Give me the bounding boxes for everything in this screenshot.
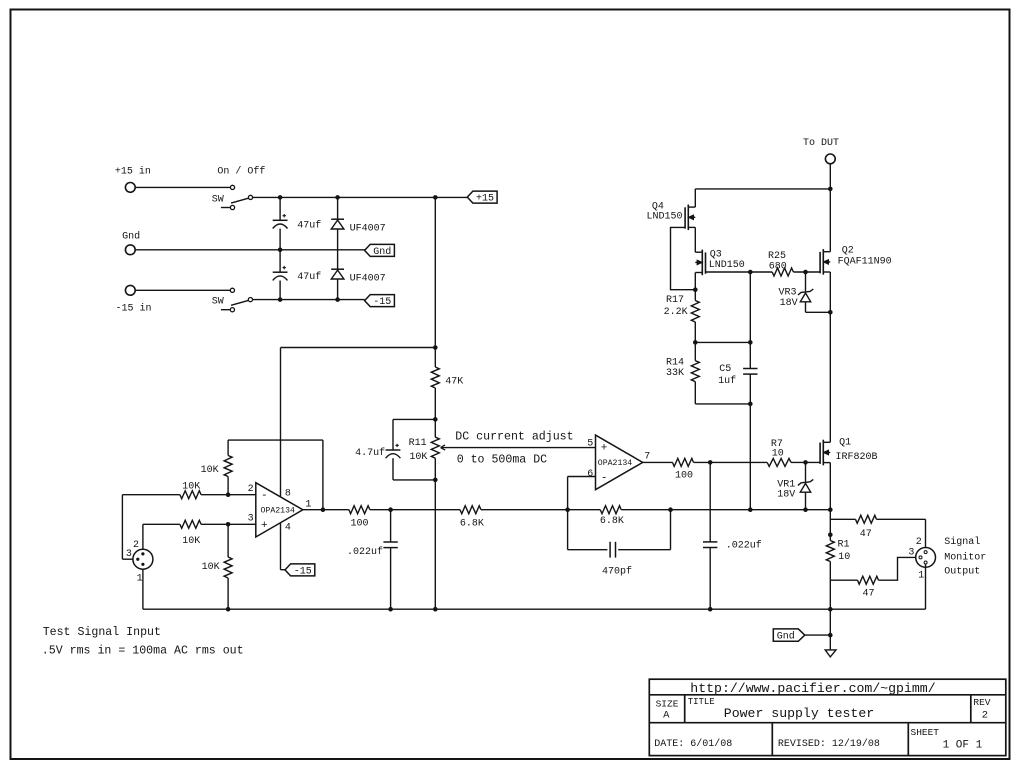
transistor Q2 FQAF11N90	[822, 249, 824, 275]
svg-text:Signal: Signal	[944, 536, 980, 548]
node rail/main vertical	[433, 607, 438, 612]
resistor R7 10	[767, 458, 791, 466]
svg-text:1: 1	[137, 573, 143, 584]
svg-text:VR3: VR3	[779, 288, 797, 299]
svg-text:REVISED: 12/19/08: REVISED: 12/19/08	[778, 738, 880, 750]
wire to 10K noninverting resistor	[143, 523, 180, 525]
diode UF4007 lower	[331, 268, 344, 270]
svg-text:-15: -15	[294, 567, 312, 578]
node Gnd row / cap column	[278, 248, 283, 253]
wire Q1 source down	[829, 463, 831, 541]
capacitor .022uf	[390, 510, 392, 542]
svg-text:6: 6	[587, 469, 593, 480]
node Gnd flag junction	[828, 633, 833, 638]
svg-text:Gnd: Gnd	[122, 231, 140, 243]
node VR1 top	[803, 460, 808, 465]
wire U1 supply tap to pin 8	[281, 347, 436, 349]
wire Q4 gate loop	[671, 227, 696, 289]
node C5 bottom	[748, 402, 753, 407]
wire XLR pin3 to inverting path	[122, 558, 132, 560]
wire 6.8K to U2 pin6 node	[481, 509, 600, 511]
svg-text:10K: 10K	[201, 465, 219, 476]
svg-text:+: +	[261, 520, 268, 532]
ground symbol	[825, 650, 836, 657]
resistor 10K noninverting input	[180, 520, 201, 528]
title block	[649, 679, 1006, 755]
svg-text:0 to 500ma DC: 0 to 500ma DC	[457, 453, 547, 466]
node -15 rail / diode column	[335, 297, 340, 302]
svg-text:100: 100	[351, 518, 369, 529]
wire ground rail	[143, 608, 926, 610]
svg-text:1: 1	[918, 570, 924, 581]
node R1 top	[828, 533, 833, 538]
svg-text:LND150: LND150	[709, 260, 745, 271]
wire Q3 gate vertical with C5	[749, 272, 751, 369]
wire R7 to Q1 gate	[791, 461, 820, 463]
node Q3 gate vertical	[748, 507, 753, 512]
wire To DUT down to Q2 drain	[829, 164, 831, 252]
resistor R1 10	[826, 541, 834, 562]
wire feedback top	[228, 439, 323, 441]
svg-text:470pf: 470pf	[602, 565, 632, 577]
wire 47K to R11	[434, 388, 436, 437]
svg-text:+15 in: +15 in	[115, 166, 151, 178]
svg-text:R14: R14	[666, 357, 684, 368]
node rail/.022uf	[388, 607, 393, 612]
svg-text:8: 8	[285, 488, 291, 499]
node Q3 gate / C5 branch	[748, 270, 753, 275]
svg-text:IRF820B: IRF820B	[836, 452, 878, 463]
node Q1 source row	[828, 507, 833, 512]
node rail/10K	[226, 607, 231, 612]
svg-text:R25: R25	[768, 251, 786, 262]
flag Gnd	[365, 244, 395, 256]
svg-text:REV: REV	[973, 697, 990, 708]
capacitor 47uf lower	[279, 250, 281, 272]
svg-text:R17: R17	[666, 295, 684, 306]
svg-text:.022uf: .022uf	[347, 546, 383, 558]
wire U1 pin 8 vertical	[280, 348, 282, 497]
resistor 6.8K feedback	[600, 506, 621, 514]
resistor 10K feedback	[224, 456, 232, 477]
svg-text:Gnd: Gnd	[777, 631, 795, 643]
connector XLR output	[916, 548, 936, 568]
svg-text:6.8K: 6.8K	[600, 516, 624, 527]
svg-text:1: 1	[305, 499, 311, 510]
svg-text:2: 2	[916, 537, 922, 548]
transistor Q4 LND150	[687, 205, 689, 231]
svg-text:A: A	[663, 709, 670, 721]
wire diode column crossing Gnd row	[337, 229, 339, 269]
svg-text:3: 3	[126, 549, 132, 560]
svg-text:R1: R1	[838, 540, 850, 551]
wire 10K ground leg to rail	[227, 578, 229, 609]
node +15 rail / cap column	[278, 195, 283, 200]
zener VR3 18V	[805, 272, 807, 291]
svg-text:TITLE: TITLE	[688, 697, 715, 707]
svg-text:FQAF11N90: FQAF11N90	[838, 256, 892, 267]
wire R25 to Q2 gate	[793, 271, 820, 273]
wire ground drop	[829, 609, 831, 650]
resistor R14 33K	[691, 361, 699, 382]
svg-text:SW: SW	[212, 195, 224, 206]
capacitor .022uf second	[709, 462, 711, 542]
wire diode column to -15 rail	[337, 279, 339, 300]
svg-text:Gnd: Gnd	[373, 246, 391, 258]
zener VR1 18V	[805, 462, 807, 481]
wire U1 output	[303, 509, 349, 511]
resistor 6.8K input to U2	[460, 506, 481, 514]
svg-text:Q2: Q2	[842, 245, 854, 256]
node U1 supply tap	[433, 345, 438, 350]
wire 10K to U1 pin 3	[201, 523, 256, 525]
svg-text:Test Signal Input: Test Signal Input	[43, 626, 161, 639]
svg-text:DATE: 6/01/08: DATE: 6/01/08	[654, 738, 732, 750]
node U2 pin 6 junction	[565, 507, 570, 512]
node Q3 source / R17	[693, 287, 698, 292]
svg-text:100: 100	[675, 470, 693, 481]
svg-text:-: -	[601, 472, 608, 484]
potentiometer R11 10K	[431, 437, 439, 458]
wire feedback right vertical	[322, 440, 324, 510]
svg-text:C5: C5	[719, 364, 731, 375]
diode UF4007 upper	[337, 197, 339, 219]
wire U2 pin 6	[568, 476, 596, 478]
svg-text:10K: 10K	[182, 536, 200, 547]
connector XLR input	[133, 549, 153, 569]
capacitor 470pf loop	[568, 549, 608, 551]
wire 10K to U1 pin 2	[201, 494, 256, 496]
wire XLR pin1 to ground rail	[142, 569, 144, 609]
svg-text:UF4007: UF4007	[350, 273, 386, 284]
node rail/output vertical	[828, 607, 833, 612]
wire +15 rail	[253, 196, 468, 198]
node rail/.022uf second	[708, 607, 713, 612]
node DUT line / Q4 branch	[828, 187, 833, 192]
wire to 47 lower	[830, 579, 857, 581]
flag +15	[467, 191, 497, 203]
svg-text:4: 4	[285, 523, 291, 534]
svg-text:Q1: Q1	[839, 437, 851, 448]
wire to 47 upper	[830, 518, 855, 520]
wire U1 pin 4 to -15 flag	[280, 523, 282, 570]
svg-text:2.2K: 2.2K	[664, 307, 688, 318]
svg-text:On / Off: On / Off	[217, 166, 265, 178]
svg-text:To DUT: To DUT	[803, 138, 839, 149]
wire 100 to R7	[694, 461, 768, 463]
wire XLR out pin1 to ground rail	[925, 564, 927, 609]
wire R11 to box bottom and ground rail	[434, 458, 436, 609]
svg-text:18V: 18V	[777, 489, 795, 500]
node VR1 bottom	[803, 507, 808, 512]
svg-text:47: 47	[863, 589, 875, 600]
svg-text:DC current adjust: DC current adjust	[455, 431, 573, 444]
svg-text:OPA2134: OPA2134	[598, 459, 632, 468]
resistor R25 680	[772, 268, 793, 276]
wire top branch to Q4	[695, 188, 830, 190]
svg-text:1 OF 1: 1 OF 1	[943, 740, 983, 752]
svg-text:+: +	[601, 443, 608, 455]
resistor 100	[349, 506, 370, 514]
svg-text:10K: 10K	[202, 562, 220, 573]
svg-text:.022uf: .022uf	[726, 539, 762, 551]
svg-text:10K: 10K	[409, 452, 427, 463]
svg-text:-15 in: -15 in	[116, 303, 152, 315]
wire U2 output	[643, 461, 673, 463]
resistor R17 2.2K	[694, 290, 696, 301]
node -15 rail / cap column	[278, 297, 283, 302]
node 470pf right	[668, 507, 673, 512]
svg-text:2: 2	[982, 709, 988, 721]
node output/feedback	[321, 507, 326, 512]
svg-text:+15: +15	[476, 194, 494, 205]
node +15 rail / main vertical	[433, 195, 438, 200]
wire -15 in to switch	[135, 289, 230, 291]
wire -15 rail	[253, 299, 365, 301]
svg-text:3: 3	[248, 513, 254, 524]
svg-text:Power supply tester: Power supply tester	[724, 706, 874, 721]
svg-text:5: 5	[587, 439, 593, 450]
node VR3 top	[803, 270, 808, 275]
wire Q2 source down to Q1 drain	[829, 272, 831, 442]
svg-text:UF4007: UF4007	[350, 224, 386, 235]
capacitor 4.7uf / box around R11	[393, 418, 435, 420]
node pin2 / feedback	[226, 492, 231, 497]
svg-text:-15: -15	[373, 297, 391, 308]
svg-text:10: 10	[838, 552, 850, 563]
capacitor C5 1uf	[743, 368, 757, 370]
node +15 rail / diode column	[335, 195, 340, 200]
svg-text:Monitor: Monitor	[944, 551, 986, 563]
svg-text:47uf: 47uf	[297, 219, 321, 231]
resistor 10K to ground	[227, 524, 229, 557]
resistor 100 at U2 output	[673, 458, 694, 466]
wire Gnd row	[135, 249, 364, 251]
svg-text:SIZE: SIZE	[656, 699, 679, 710]
wire to 10K inverting input resistor	[122, 494, 179, 496]
svg-text:47: 47	[860, 529, 872, 540]
svg-text:4.7uf: 4.7uf	[355, 447, 385, 459]
resistor 47 upper	[856, 515, 877, 523]
svg-text:SW: SW	[212, 296, 224, 307]
transistor Q3 LND150	[701, 250, 703, 276]
node R11 box bottom	[433, 478, 438, 483]
svg-text:R11: R11	[409, 438, 427, 449]
node R17/R14	[693, 340, 698, 345]
svg-text:1uf: 1uf	[718, 375, 736, 387]
wiper arrow of R11 to U2 pin 5	[441, 447, 596, 449]
wire +15 in to switch	[135, 186, 230, 188]
wire XLR pin2 up	[142, 524, 144, 549]
node C5 top	[748, 340, 753, 345]
wire Gnd flag to drop	[805, 634, 831, 636]
node pin3 / ground leg	[226, 522, 231, 527]
svg-text:Output: Output	[944, 567, 980, 578]
svg-text:33K: 33K	[666, 368, 684, 379]
wire 47 lower to XLR pin3	[879, 557, 920, 580]
node R11 box top	[433, 417, 438, 422]
resistor 47K	[431, 367, 439, 388]
op-amp U2 OPA2134	[596, 435, 643, 490]
wire R1 to ground rail	[829, 562, 831, 610]
svg-text:SHEET: SHEET	[911, 727, 940, 738]
svg-text:47uf: 47uf	[297, 271, 321, 283]
svg-text:http://www.pacifier.com/~gpimm: http://www.pacifier.com/~gpimm/	[690, 681, 935, 696]
wire row to VR1 node and Q1 source	[621, 509, 830, 511]
wire Q4 drain	[694, 189, 696, 207]
wire Q3 source down	[694, 273, 696, 290]
svg-text:47K: 47K	[445, 376, 463, 387]
flag -15 at U1 pin 4	[285, 564, 315, 576]
svg-text:7: 7	[644, 452, 650, 463]
wire Q4 source to Q3 drain	[694, 227, 696, 252]
resistor 10K inverting input	[180, 491, 201, 499]
op-amp U1 OPA2134	[256, 483, 303, 537]
wire 47 upper to XLR pin2	[877, 518, 926, 520]
wire Q3 gate row	[706, 271, 773, 273]
svg-text:LND150: LND150	[647, 211, 683, 222]
svg-text:-: -	[261, 490, 268, 502]
wire feedback resistor to pin2 node	[227, 477, 229, 495]
svg-text:.5V rms in = 100ma AC rms out: .5V rms in = 100ma AC rms out	[42, 645, 244, 658]
svg-text:OPA2134: OPA2134	[261, 507, 295, 516]
flag -15	[365, 295, 395, 307]
capacitor 47uf upper	[279, 197, 281, 220]
wire main +15 vertical upper	[434, 197, 436, 367]
node .022uf tap	[388, 507, 393, 512]
flag Gnd bottom	[773, 629, 805, 641]
svg-text:10: 10	[772, 448, 784, 459]
svg-text:18V: 18V	[780, 298, 798, 309]
svg-text:3: 3	[908, 548, 914, 559]
wire row C5 bottom	[695, 403, 750, 405]
svg-text:2: 2	[133, 540, 139, 551]
wire row to C5 top	[695, 341, 750, 343]
transistor Q1 IRF820B	[822, 440, 824, 466]
wire 100 to 6.8K	[370, 509, 460, 511]
svg-text:10K: 10K	[182, 482, 200, 493]
node .022uf second top	[708, 460, 713, 465]
svg-text:680: 680	[769, 262, 787, 273]
resistor 47 lower	[858, 576, 879, 584]
node VR3 / Q2 source line	[828, 310, 833, 315]
svg-text:6.8K: 6.8K	[460, 518, 484, 529]
svg-text:2: 2	[248, 484, 254, 495]
